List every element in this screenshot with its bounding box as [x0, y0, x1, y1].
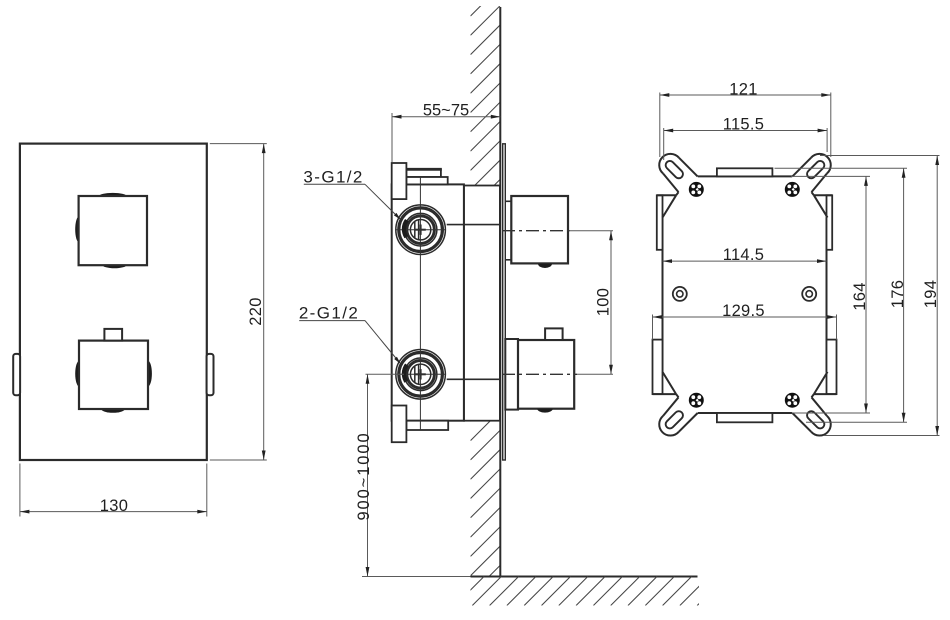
back view: bottom-left mounting ear with slot: [659, 394, 701, 436]
dim 115.5 line: [664, 130, 827, 132]
front view: plate right side tab: [207, 354, 214, 395]
back view: upper-right side tab: [827, 195, 833, 250]
svg-text:129.5: 129.5: [722, 302, 765, 320]
svg-text:115.5: 115.5: [723, 116, 765, 134]
front view: lower knob top tab: [104, 329, 122, 341]
svg-text:121: 121: [729, 80, 757, 98]
lower handle square: [518, 340, 574, 409]
back view: left middle hole: [673, 287, 687, 301]
upper port G1/2 concentric circles: [396, 205, 446, 255]
svg-text:130: 130: [100, 497, 128, 515]
back view: body right edge: [826, 218, 828, 372]
valve body lower-left boss: [392, 406, 407, 443]
dim 164 extension lines: [791, 175, 870, 177]
valve body top step 1: [406, 170, 441, 178]
lower handle centerline: [502, 373, 577, 375]
dim 220 line: [263, 144, 265, 460]
dim 130 line: [20, 511, 207, 513]
valve body box: [392, 184, 464, 420]
front view: upper knob round base bumps: [99, 193, 127, 196]
back view: lower-right side tab: [827, 340, 837, 395]
svg-text:194: 194: [922, 280, 940, 308]
svg-text:2-G1/2: 2-G1/2: [299, 304, 359, 323]
dim 900~1000 line: [367, 374, 369, 576]
dim 194 line: [936, 156, 938, 436]
svg-text:114.5: 114.5: [723, 246, 765, 264]
back view: right middle hole: [802, 287, 816, 301]
back view: bottom-right screw: [785, 393, 799, 407]
wall face line: [499, 7, 501, 577]
dim 220 extension lines: [210, 143, 267, 145]
upper handle bottom nub: [538, 264, 552, 268]
upper handle centerline: [502, 230, 570, 232]
svg-text:3-G1/2: 3-G1/2: [303, 167, 363, 186]
front view: lower knob square handle: [79, 341, 148, 409]
dim 114.5 line: [663, 260, 827, 262]
trim plate seen edge-on: [503, 144, 506, 460]
dim 176 extension lines: [775, 167, 908, 169]
dim 121 line: [660, 94, 831, 96]
dim 55~75 line: [392, 116, 500, 118]
valve body upper-left boss: [392, 163, 407, 199]
dim 194 extension lines: [820, 155, 940, 157]
dim 130 extension lines: [19, 464, 21, 517]
lower port G1/2 concentric circles: [396, 350, 446, 400]
in-wall housing between valve body and wall face: [464, 186, 500, 421]
back view: top edge: [698, 175, 793, 177]
floor line: [471, 576, 698, 578]
dim 115.5 extension lines: [663, 128, 665, 160]
svg-text:220: 220: [247, 297, 265, 325]
valve body bottom step: [406, 421, 448, 430]
dim 129.5 line: [653, 316, 837, 318]
front view: lower knob round base bumps: [75, 361, 79, 387]
dim 900~1000 extension line: [366, 373, 405, 375]
back view: bottom middle tab: [717, 413, 773, 422]
upper handle stem lines: [505, 200, 511, 202]
back view: body left edge: [662, 218, 664, 372]
svg-text:100: 100: [594, 288, 612, 316]
back view: top-right screw: [785, 182, 799, 196]
dim 129.5 extension lines: [652, 315, 654, 340]
back view: bottom-right mounting ear with slot: [789, 394, 831, 436]
svg-text:176: 176: [889, 280, 907, 308]
front view: upper knob square handle: [79, 196, 147, 265]
svg-text:900~1000: 900~1000: [355, 431, 373, 520]
lower handle top tab: [545, 328, 563, 340]
lower inlet connection line to wall: [447, 378, 501, 380]
lower handle base flange: [505, 339, 518, 410]
lower handle bottom nub: [537, 409, 552, 413]
back view: top middle tab: [717, 168, 773, 176]
dim 176 line: [903, 168, 905, 422]
upper inlet connection line to wall: [447, 224, 501, 226]
ports vertical centerline: [419, 177, 421, 430]
back view: top-left screw: [689, 182, 703, 196]
dim 100 extension lines: [570, 230, 613, 232]
back view: bottom-left screw: [689, 393, 703, 407]
svg-text:55~75: 55~75: [423, 102, 469, 120]
svg-text:164: 164: [851, 282, 869, 310]
front view: trim plate: [20, 144, 207, 460]
dim 55~75 extension line: [391, 113, 393, 162]
back view: top-left mounting ear with slot: [659, 154, 701, 196]
back view: lower-left side tab: [653, 340, 663, 395]
back view: upper-left side tab: [657, 195, 663, 250]
upper handle square: [511, 196, 568, 263]
floor line left extension: [362, 576, 471, 578]
back view: top-right mounting ear with slot: [789, 154, 831, 196]
front view: plate left side tab: [13, 354, 20, 395]
dim 121 extension lines: [659, 93, 661, 158]
dim 164 line: [865, 176, 867, 413]
back view: bottom edge: [698, 412, 793, 414]
valve body top step 2: [406, 177, 447, 184]
dim 100 line: [610, 231, 612, 375]
